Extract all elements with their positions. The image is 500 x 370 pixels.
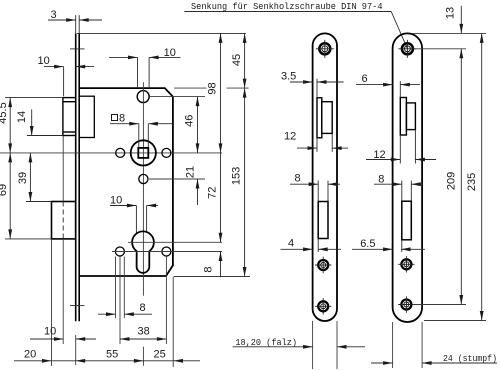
svg-text:10: 10 (164, 47, 176, 59)
svg-text:8: 8 (140, 302, 146, 314)
vertical center line (142, 82, 144, 296)
deadbolt dashed line (62, 202, 64, 239)
dim 3.5 (290, 81, 313, 83)
small circles beside cylinder (115, 247, 124, 256)
svg-text:46: 46 (184, 115, 196, 127)
svg-text:12: 12 (373, 149, 385, 161)
latch box (inside case) (79, 96, 94, 137)
dim 6 (356, 84, 393, 86)
stumpf dim (392, 322, 394, 368)
svg-text:69: 69 (0, 184, 9, 196)
dim 3 (faceplate thickness) (48, 9, 102, 22)
dim row 10 / 38 (30, 326, 166, 341)
svg-text:18,20 (falz): 18,20 (falz) (235, 337, 297, 348)
small circle below follower (139, 174, 148, 183)
dim 12 (297, 147, 317, 149)
svg-text:21: 21 (185, 166, 197, 178)
svg-text:98: 98 (207, 82, 219, 94)
svg-text:24 (stumpf): 24 (stumpf) (443, 353, 497, 364)
svg-text:235: 235 (466, 173, 478, 191)
latch cutout opening (406, 103, 415, 130)
lower circles horizontal extension (112, 251, 222, 253)
latch head (outside faceplate) (63, 98, 76, 136)
lower screws (398, 256, 414, 272)
deadbolt (52, 202, 76, 239)
dim 10 top (circle) (109, 47, 180, 88)
deadbolt top edge extension (26, 201, 52, 203)
latch cutout opening (322, 102, 332, 134)
falz dim (312, 321, 314, 369)
faceplate tick marks (screw positions) (70, 49, 85, 306)
euro profile cylinder hole (132, 231, 154, 272)
right side extension lines for plate dims (412, 33, 486, 320)
top screw (316, 40, 334, 58)
svg-text:10: 10 (110, 195, 122, 207)
svg-text:8: 8 (119, 113, 125, 125)
dim 209 column (446, 49, 464, 305)
top screw (398, 40, 416, 58)
bolt cutout (318, 202, 328, 239)
right side extension lines (149, 97, 250, 277)
dim 13 column (445, 6, 464, 34)
faceplate bar (edge view) (76, 33, 80, 321)
svg-text:8: 8 (295, 173, 301, 185)
top edge extension line y=33.4 (77, 32, 246, 34)
dim 8 (374, 183, 402, 185)
dim 98 column (207, 33, 223, 152)
svg-text:Senkung für Senkholzschraube D: Senkung für Senkholzschraube DIN 97-4 (191, 1, 383, 12)
svg-text:39: 39 (17, 172, 29, 184)
lower screws (315, 257, 331, 273)
svg-text:4: 4 (288, 238, 294, 250)
bottom extension lines (52, 239, 174, 367)
dim 10 left (latch protrusion) (38, 55, 95, 96)
svg-text:25: 25 (154, 349, 166, 361)
dim 235 column (466, 33, 484, 320)
svg-text:153: 153 (231, 167, 243, 185)
dim 153 column (231, 88, 247, 276)
dim 46 column (184, 97, 200, 153)
svg-text:14: 14 (16, 111, 28, 123)
dim 14 column (16, 109, 34, 135)
plate outline (393, 33, 423, 322)
svg-text:10: 10 (44, 326, 56, 338)
svg-text:38: 38 (138, 326, 150, 338)
svg-text:45.5: 45.5 (0, 102, 9, 123)
svg-text:6: 6 (362, 73, 368, 85)
dim 12 (366, 159, 400, 161)
svg-text:45: 45 (231, 54, 243, 66)
dim 6.5 (352, 248, 393, 250)
dim 39 column (17, 153, 32, 202)
bolt cutout (402, 201, 412, 240)
dim 8 column right (203, 252, 223, 278)
deadbolt bottom edge extension (5, 238, 52, 240)
svg-text:3.5: 3.5 (281, 71, 296, 83)
case top edge extension to dim 45 (174, 87, 207, 89)
dim 8 (290, 183, 318, 185)
dim 72 column (206, 153, 222, 242)
dim 45.5 column (0, 98, 12, 153)
small circles beside follower (116, 148, 125, 157)
svg-text:20: 20 (24, 349, 36, 361)
latch top edge extension (5, 97, 63, 99)
dim 10 cylinder width (110, 195, 158, 234)
plate outline (313, 33, 337, 321)
svg-text:12: 12 (284, 131, 296, 143)
svg-text:3: 3 (51, 9, 57, 21)
latch cutout lip (317, 98, 322, 138)
latch face vertical extension (down to bottom dims) (62, 136, 64, 345)
faceplate top extension lines for dim 3 (76, 15, 80, 33)
svg-text:13: 13 (445, 7, 457, 19)
follower: big circle with square hole (131, 140, 156, 165)
lock case outline (79, 88, 173, 276)
dim 21 column (185, 166, 200, 205)
latch cutout lip (400, 98, 406, 136)
dim row 20 / 55 / 25 (14, 349, 200, 363)
dim 45 column (231, 33, 247, 88)
svg-text:10: 10 (38, 55, 50, 67)
dim square 8 leader (110, 113, 173, 148)
svg-text:8: 8 (378, 174, 384, 186)
svg-text:72: 72 (206, 187, 218, 199)
cylinder horizontal extension (128, 241, 222, 243)
top circle (137, 91, 149, 103)
svg-text:8: 8 (203, 266, 215, 272)
horizontal center line (0, 152, 222, 154)
latch bottom edge extension (27, 135, 63, 137)
svg-text:209: 209 (446, 172, 458, 190)
dim 8 bottom (circle dia) (98, 302, 152, 316)
dim 69 column (0, 153, 12, 239)
svg-text:55: 55 (106, 349, 118, 361)
svg-text:6.5: 6.5 (360, 238, 375, 250)
dim 4 (281, 248, 313, 250)
